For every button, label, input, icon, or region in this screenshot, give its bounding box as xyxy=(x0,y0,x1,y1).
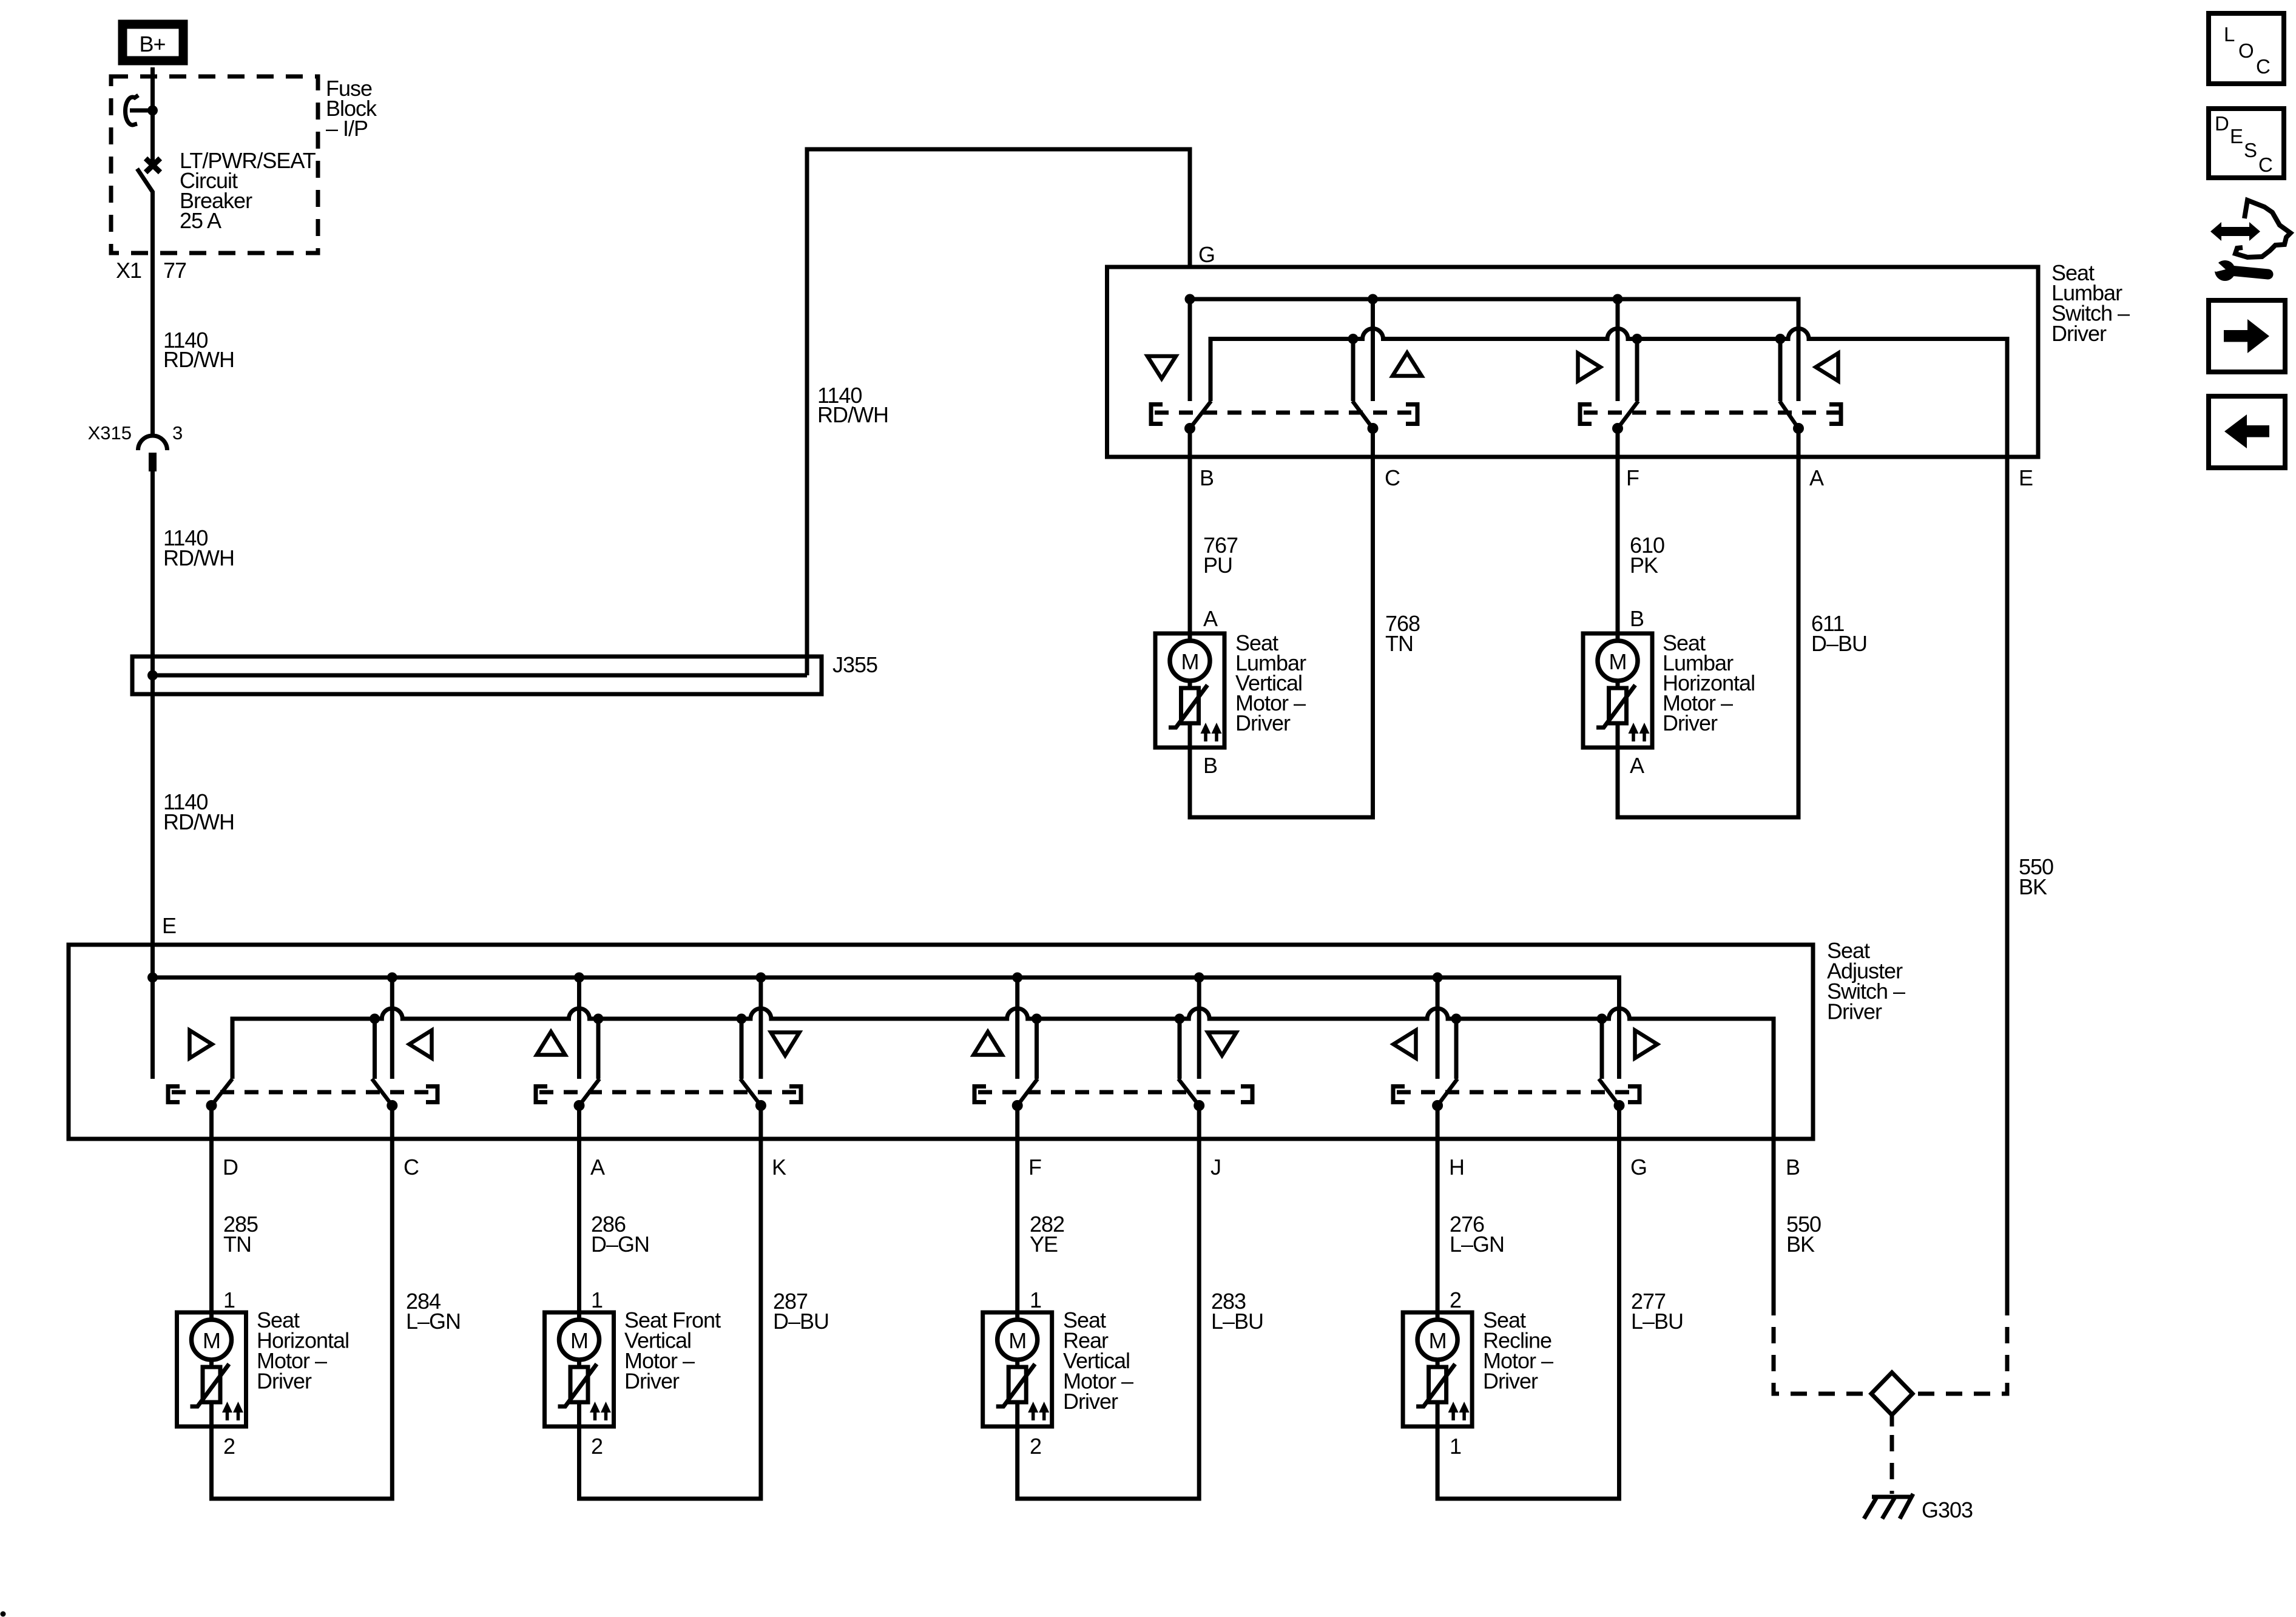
motor: Seat Lumbar Vertical Motor - Driver xyxy=(1155,633,1224,748)
wire: breaker output through connector X1 pin 77 xyxy=(150,191,155,436)
seat forward symbol xyxy=(190,1030,212,1058)
node: feed bus dot at C xyxy=(387,973,397,983)
node: blade pivot F xyxy=(1612,423,1623,434)
nav icon next arrow xyxy=(2209,300,2285,372)
svg-text:F: F xyxy=(1028,1155,1041,1180)
wire 282 YE: adjuster F to rear vertical motor pin 1 xyxy=(1015,1106,1019,1312)
node: feed bus dot at H xyxy=(1433,973,1443,983)
wire 611 D-BU: motor pin A return to switch pin A xyxy=(1618,428,1798,817)
node: feed bus dot at K xyxy=(755,973,766,983)
svg-text:L–GN: L–GN xyxy=(1450,1232,1504,1257)
wire: switch J feed contact xyxy=(1197,977,1201,1079)
svg-text:D: D xyxy=(223,1155,238,1180)
seat recline forward symbol xyxy=(1635,1030,1658,1058)
wire: switch A return stub xyxy=(1778,339,1783,402)
wire: switch H feed contact xyxy=(1436,977,1440,1079)
switch blade G xyxy=(1599,1079,1619,1106)
node: blade pivot G xyxy=(1614,1100,1625,1111)
svg-text:B: B xyxy=(1203,753,1217,778)
node: J355 tap on 1140 feed xyxy=(147,670,158,681)
node: blade pivot A xyxy=(574,1100,585,1111)
svg-text:X1: X1 xyxy=(116,258,141,283)
switch blade C xyxy=(372,1079,392,1106)
node: bus dot at B xyxy=(1185,294,1195,305)
wire 550 BK: lumbar pin E ground lead xyxy=(2005,457,2010,1315)
svg-text:O: O xyxy=(2238,39,2254,62)
svg-text:D–BU: D–BU xyxy=(773,1309,829,1334)
wire: switch J return stub xyxy=(1178,1019,1182,1079)
node: return bus dot right of H xyxy=(1451,1014,1462,1024)
Seat Horizontal Motor label xyxy=(257,1308,349,1394)
wire: splice to ground stub xyxy=(1890,1415,1894,1426)
node: blade pivot D xyxy=(206,1100,217,1111)
seat rear down symbol xyxy=(1208,1033,1237,1056)
Seat Lumbar Horizontal Motor label xyxy=(1663,630,1755,735)
wire label 285 TN xyxy=(223,1212,258,1257)
svg-text:1: 1 xyxy=(223,1288,235,1312)
wire: switch C feed contact xyxy=(390,977,394,1079)
wire 550 BK: adjuster pin B ground lead xyxy=(1772,1139,1776,1315)
switch blade A xyxy=(1780,401,1798,428)
wire 550 BK dashed to splice (lumbar side) xyxy=(1913,1315,2007,1394)
svg-text:Driver: Driver xyxy=(624,1369,680,1394)
wire 276 L-GN: adjuster H to recline motor pin 2 xyxy=(1436,1106,1440,1312)
svg-text:RD/WH: RD/WH xyxy=(163,809,234,834)
wire label 1140 RD/WH (middle) xyxy=(163,525,234,570)
wire: switch A return stub xyxy=(596,1019,601,1079)
svg-text:E: E xyxy=(2230,125,2243,147)
svg-text:Driver: Driver xyxy=(1235,711,1291,735)
node: blade pivot A xyxy=(1793,423,1804,434)
seat front up symbol xyxy=(537,1032,566,1055)
node: feed bus dot at E xyxy=(147,973,158,983)
wire: switch B feed contact xyxy=(1188,299,1192,401)
switch blade F xyxy=(1018,1079,1038,1106)
lumbar down symbol xyxy=(1147,356,1176,379)
wire: switch K feed contact xyxy=(758,977,763,1079)
svg-text:2: 2 xyxy=(1450,1288,1461,1312)
wire 277 L-BU: motor pin 1 return to adjuster pin G xyxy=(1437,1106,1619,1499)
motor: Seat Front Vertical Motor - Driver xyxy=(545,1312,614,1426)
wire: adjuster return bus to pin B xyxy=(232,1008,1774,1139)
wire: switch F return stub xyxy=(1035,1019,1039,1079)
splice pack J355 box xyxy=(132,657,822,694)
nav icon previous arrow xyxy=(2209,396,2285,468)
wire label 283 L-BU xyxy=(1211,1289,1263,1334)
svg-text:E: E xyxy=(162,913,176,938)
wire: junction to breaker contact xyxy=(150,110,155,161)
svg-text:Driver: Driver xyxy=(2051,321,2107,346)
Seat Adjuster Switch - Driver box xyxy=(69,945,1813,1139)
wire label 1140 RD/WH (lower) xyxy=(163,789,234,834)
node: bus dot at F xyxy=(1613,294,1623,305)
lumbar up symbol xyxy=(1393,353,1422,376)
svg-text:B: B xyxy=(1630,606,1644,631)
svg-text:B: B xyxy=(1200,465,1214,490)
wire 283 L-BU: motor pin 2 return to adjuster pin J xyxy=(1018,1106,1200,1499)
switch blade C xyxy=(1352,401,1373,428)
page corner mark xyxy=(1,1612,6,1617)
ground G303 symbol xyxy=(1864,1494,1913,1519)
svg-text:L–BU: L–BU xyxy=(1631,1309,1683,1334)
Seat Lumbar Vertical Motor label xyxy=(1235,630,1306,735)
wire: lumbar feed bus xyxy=(1190,299,1798,401)
switch blade A xyxy=(579,1079,600,1106)
wire label 282 YE xyxy=(1030,1212,1064,1257)
wire label 1140 RD/WH (riser) xyxy=(817,383,888,427)
wire: switch K return stub xyxy=(740,1019,744,1079)
svg-text:Driver: Driver xyxy=(1483,1369,1538,1394)
wire 287 D-BU: motor pin 2 return to adjuster pin K xyxy=(579,1106,761,1499)
svg-text:TN: TN xyxy=(223,1232,251,1257)
svg-text:– I/P: – I/P xyxy=(326,116,368,141)
node: blade pivot J xyxy=(1194,1100,1204,1111)
actuator link A-K xyxy=(536,1087,801,1102)
motor: Seat Rear Vertical Motor - Driver xyxy=(983,1312,1052,1426)
node: feed bus dot at J xyxy=(1194,973,1204,983)
svg-text:A: A xyxy=(1809,465,1824,490)
svg-text:3: 3 xyxy=(172,422,183,444)
Seat Front Vertical Motor label xyxy=(624,1308,721,1394)
seat front down symbol xyxy=(771,1033,800,1056)
wire: switch H return stub xyxy=(1454,1019,1459,1079)
node: return bus dot right of F xyxy=(1632,334,1643,344)
nav icon LOC xyxy=(2209,13,2284,84)
svg-text:1: 1 xyxy=(591,1288,603,1312)
wire label 550 BK (lumbar) xyxy=(2019,854,2053,899)
Seat Recline Motor label xyxy=(1483,1308,1553,1394)
wire: lumbar return bus to pin E xyxy=(1210,329,2007,457)
wire 284 L-GN: motor pin 2 return to adjuster pin C xyxy=(212,1106,393,1499)
wire from B+ to fuse block xyxy=(150,67,155,108)
svg-text:C: C xyxy=(403,1155,419,1180)
node: blade pivot F xyxy=(1012,1100,1023,1111)
switch blade D xyxy=(212,1079,233,1106)
svg-text:PU: PU xyxy=(1203,553,1232,578)
svg-text:BK: BK xyxy=(2019,874,2047,899)
Seat Lumbar Switch - Driver label xyxy=(2051,260,2130,346)
node: return bus dot right of A xyxy=(593,1014,604,1024)
wire 767 PU: lumbar switch B to vertical motor pin A xyxy=(1188,428,1192,633)
node: return bus dot left of K xyxy=(737,1014,747,1024)
svg-text:2: 2 xyxy=(591,1434,603,1459)
wire: switch F feed contact xyxy=(1616,299,1620,401)
svg-text:2: 2 xyxy=(1030,1434,1041,1459)
Seat Rear Vertical Motor label xyxy=(1063,1308,1133,1414)
node: blade pivot B xyxy=(1184,423,1195,434)
Seat Lumbar Switch - Driver box xyxy=(1107,267,2039,457)
svg-text:L–BU: L–BU xyxy=(1211,1309,1263,1334)
lumbar forward symbol xyxy=(1578,353,1601,381)
svg-text:TN: TN xyxy=(1385,631,1413,656)
svg-text:C: C xyxy=(1385,465,1400,490)
svg-text:77: 77 xyxy=(163,258,186,283)
node: return bus dot left of A xyxy=(1775,334,1786,344)
actuator link F-A xyxy=(1580,405,1843,424)
svg-text:D–BU: D–BU xyxy=(1811,631,1867,656)
seat recline rearward symbol xyxy=(1394,1030,1416,1058)
circuit breaker blade xyxy=(137,169,153,192)
wire: switch G return stub xyxy=(1600,1019,1604,1079)
svg-text:Driver: Driver xyxy=(1063,1389,1118,1414)
svg-text:25 A: 25 A xyxy=(180,208,221,233)
wire: J355 internal bus xyxy=(153,673,808,678)
svg-text:X315: X315 xyxy=(88,422,132,444)
switch blade F xyxy=(1618,401,1638,428)
seat rearward symbol xyxy=(410,1030,432,1058)
svg-text:J: J xyxy=(1210,1155,1221,1180)
wire label 276 L-GN xyxy=(1450,1212,1504,1257)
wire: dashed drop to ground xyxy=(1890,1435,1894,1494)
switch blade B xyxy=(1190,401,1211,428)
wire label 767 PU xyxy=(1203,533,1238,578)
wire: switch A feed contact xyxy=(577,977,581,1079)
svg-text:H: H xyxy=(1449,1155,1464,1180)
svg-text:PK: PK xyxy=(1630,553,1658,578)
svg-text:D: D xyxy=(2215,112,2229,135)
actuator link B-C xyxy=(1151,405,1417,424)
wire label 768 TN xyxy=(1385,611,1420,656)
svg-text:Driver: Driver xyxy=(1663,711,1718,735)
svg-text:RD/WH: RD/WH xyxy=(817,402,888,427)
actuator link F-J xyxy=(974,1087,1252,1102)
motor: Seat Horizontal Motor - Driver xyxy=(177,1312,246,1426)
wire: adjuster feed bus xyxy=(153,977,1619,1079)
wire: switch C return stub xyxy=(1351,339,1356,402)
Seat Adjuster Switch - Driver label xyxy=(1827,938,1905,1024)
node: bus dot at C xyxy=(1368,294,1378,305)
svg-text:G: G xyxy=(1630,1155,1647,1180)
svg-text:G303: G303 xyxy=(1922,1497,1973,1522)
svg-text:G: G xyxy=(1198,242,1215,267)
wire 550 BK dashed to splice (adjuster side) xyxy=(1774,1315,1871,1394)
wire: riser 1140 RD/WH from J355 up and over to lumbar switch pin G xyxy=(807,149,1190,675)
svg-text:L: L xyxy=(2224,23,2235,46)
node: blade pivot C xyxy=(1368,423,1379,434)
wire label 284 L-GN xyxy=(406,1289,461,1334)
svg-text:BK: BK xyxy=(1786,1232,1815,1257)
circuit breaker label xyxy=(180,148,316,233)
wire: switch C feed contact xyxy=(1371,299,1375,401)
wire label 611 D-BU xyxy=(1811,611,1867,656)
node: return bus dot left of J xyxy=(1175,1014,1185,1024)
svg-text:A: A xyxy=(1203,606,1218,631)
svg-text:L–GN: L–GN xyxy=(406,1309,461,1334)
svg-text:S: S xyxy=(2244,139,2257,161)
seat rear up symbol xyxy=(974,1032,1002,1055)
switch blade J xyxy=(1178,1079,1199,1106)
wire label 277 L-BU xyxy=(1631,1289,1683,1334)
node: return bus dot right of F xyxy=(1032,1014,1042,1024)
svg-text:A: A xyxy=(1630,753,1644,778)
fuse block dashed box xyxy=(111,76,318,253)
connector X315 symbol xyxy=(138,436,167,471)
wire 286 D-GN: adjuster A to front vertical motor pin 1 xyxy=(577,1106,581,1312)
svg-text:B+: B+ xyxy=(139,32,165,56)
svg-text:RD/WH: RD/WH xyxy=(163,347,234,372)
svg-text:C: C xyxy=(2258,154,2272,176)
switch blade H xyxy=(1437,1079,1457,1106)
svg-text:J355: J355 xyxy=(832,652,877,677)
svg-text:Driver: Driver xyxy=(1827,999,1882,1024)
switch blade K xyxy=(740,1079,761,1106)
wire 610 PK: lumbar switch F to horizontal motor pin B xyxy=(1616,428,1620,633)
svg-text:B: B xyxy=(1786,1155,1800,1180)
node: feed bus dot at F xyxy=(1012,973,1022,983)
nav icon repair instructions (arrow, panel, wrench) xyxy=(2207,200,2291,281)
actuator link H-G xyxy=(1393,1087,1639,1102)
svg-text:Driver: Driver xyxy=(257,1369,312,1394)
splice diamond xyxy=(1871,1372,1913,1415)
fuse block label xyxy=(326,76,377,141)
motor: Seat Recline Motor - Driver xyxy=(1403,1312,1472,1426)
node: blade pivot K xyxy=(755,1100,766,1111)
svg-text:2: 2 xyxy=(223,1434,235,1459)
svg-text:E: E xyxy=(2019,465,2033,490)
wire label 610 PK xyxy=(1630,533,1664,578)
wire label 1140 RD/WH (upper) xyxy=(163,328,234,372)
nav icon DESC xyxy=(2209,109,2284,178)
svg-text:F: F xyxy=(1626,465,1639,490)
battery feed B+ box xyxy=(123,24,183,61)
lumbar rearward symbol xyxy=(1816,353,1838,381)
svg-text:1: 1 xyxy=(1450,1434,1461,1459)
wire label 550 BK (adjuster) xyxy=(1786,1212,1821,1257)
wire: switch F feed contact xyxy=(1015,977,1019,1079)
circuit breaker LT/PWR/SEAT contact X xyxy=(146,158,160,172)
svg-text:D–GN: D–GN xyxy=(591,1232,649,1257)
node: feed bus dot at A xyxy=(574,973,584,983)
svg-text:C: C xyxy=(2256,55,2270,78)
node: breaker input junction xyxy=(147,106,158,116)
svg-text:1: 1 xyxy=(1030,1288,1041,1312)
svg-text:RD/WH: RD/WH xyxy=(163,545,234,570)
svg-text:K: K xyxy=(772,1155,786,1180)
node: return bus dot left of G xyxy=(1597,1014,1607,1024)
wire 285 TN: adjuster D to horizontal motor pin 1 xyxy=(209,1106,214,1312)
wire: X315 to splice J355 and on to seat adjuster switch pin E xyxy=(150,471,155,1079)
wire label 286 D-GN xyxy=(591,1212,649,1257)
node: blade pivot C xyxy=(387,1100,397,1111)
svg-text:YE: YE xyxy=(1030,1232,1058,1257)
circuit breaker hook terminal xyxy=(130,109,150,113)
motor: Seat Lumbar Horizontal Motor - Driver xyxy=(1583,633,1652,748)
wire 768 TN: motor pin B return to switch pin C xyxy=(1190,428,1373,817)
svg-text:A: A xyxy=(590,1155,605,1180)
node: blade pivot H xyxy=(1432,1100,1443,1111)
actuator link D-C xyxy=(168,1087,437,1102)
wire: switch F return stub xyxy=(1635,339,1639,402)
wire label 287 D-BU xyxy=(773,1289,829,1334)
wire: switch C return stub xyxy=(373,1019,377,1079)
node: return bus dot left of C xyxy=(370,1014,380,1024)
node: return bus dot left of C xyxy=(1348,334,1359,344)
